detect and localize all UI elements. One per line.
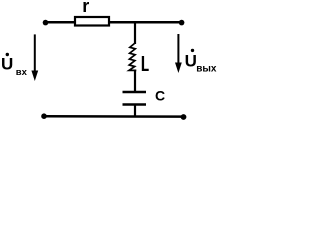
label U_vx with dot <box>6 53 9 56</box>
label U_vyx with dot <box>191 49 194 52</box>
wire top horizontal <box>45 21 182 24</box>
wire capacitor to bottom rail <box>134 105 136 117</box>
svg-text:r: r <box>82 0 89 16</box>
node bottom-left <box>41 113 47 119</box>
resistor r <box>75 17 109 26</box>
wire branch down from junction <box>134 22 136 44</box>
wire inductor to capacitor <box>134 71 136 93</box>
arrow output voltage <box>177 34 179 64</box>
node input top-left <box>43 20 49 26</box>
node output top-right <box>179 20 185 26</box>
wire bottom horizontal <box>44 115 184 118</box>
inductor L <box>129 43 136 71</box>
label L <box>142 56 149 71</box>
svg-text:вых: вых <box>196 64 217 75</box>
node bottom-right <box>181 114 187 120</box>
svg-text:вх: вх <box>16 67 28 78</box>
svg-text:U: U <box>1 55 13 74</box>
capacitor C top plate <box>123 91 147 94</box>
svg-text:U: U <box>185 52 197 71</box>
svg-text:C: C <box>155 88 165 104</box>
arrow input voltage <box>34 34 36 72</box>
capacitor C bottom plate <box>123 103 147 106</box>
